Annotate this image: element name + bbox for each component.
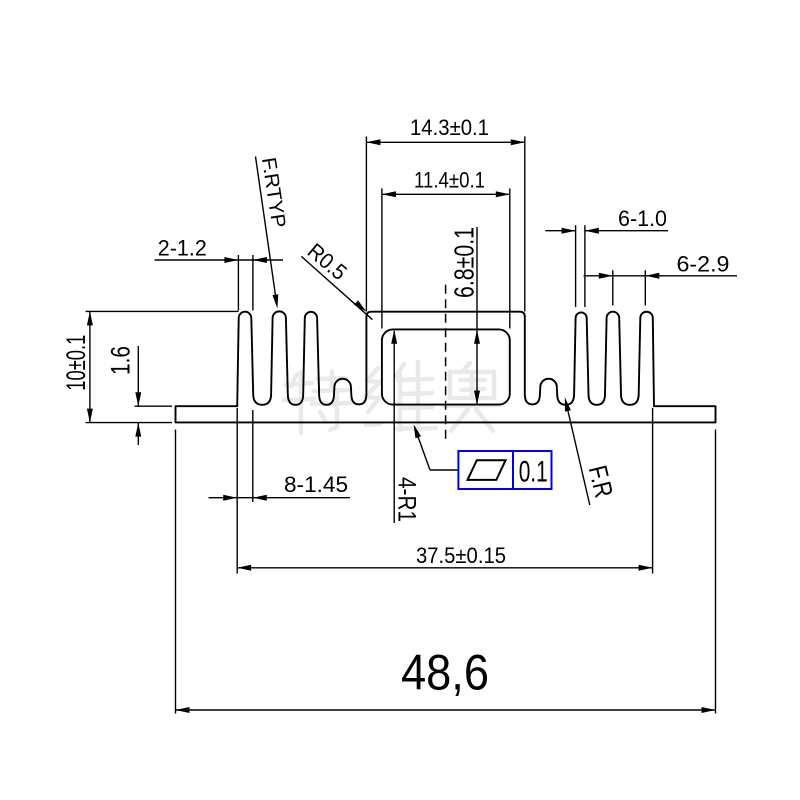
svg-text:6-1.0: 6-1.0 <box>618 206 667 231</box>
svg-text:6.8±0.1: 6.8±0.1 <box>448 227 479 298</box>
dimension 2-1.2 (outer fin thickness) <box>155 236 283 311</box>
watermark "特维奥" (light gray) <box>291 374 297 386</box>
dimension 10±0.1 (overall height, left) <box>61 311 239 422</box>
dimension 8-1.45 (fin slot width) <box>209 408 351 574</box>
svg-text:8-1.45: 8-1.45 <box>284 472 348 497</box>
svg-text:10±0.1: 10±0.1 <box>61 335 91 391</box>
dimension 14.3±0.1 (outer channel width) <box>366 115 524 312</box>
svg-text:1.6: 1.6 <box>105 346 135 375</box>
dimension 48,6 (overall width) <box>176 430 716 714</box>
svg-text:F.RTYP: F.RTYP <box>257 156 289 229</box>
svg-text:F.R: F.R <box>583 462 620 500</box>
dimension 6-2.9 (fin pitch) <box>584 251 738 305</box>
leader label 4-R1 (inner corner radii) <box>391 330 420 523</box>
dimension 6-1.0 (fin thickness) <box>545 206 668 307</box>
inner channel bore (rounded rectangle R1) <box>382 329 510 404</box>
dimension 37.5±0.15 (fin body width) <box>237 408 652 574</box>
dimension 1.6 (base thickness) <box>105 346 172 445</box>
svg-text:37.5±0.15: 37.5±0.15 <box>416 543 506 568</box>
dimension 6.8±0.1 (inner channel height) <box>448 227 480 405</box>
leader label F.RTYP (fin tip radius typical) <box>256 156 290 309</box>
heatsink profile outline <box>176 311 716 422</box>
svg-text:14.3±0.1: 14.3±0.1 <box>410 115 489 140</box>
dimension 11.4±0.1 (inner channel width) <box>382 167 510 328</box>
svg-text:R0.5: R0.5 <box>303 238 352 285</box>
flatness tolerance frame 0.1 (blue box) <box>414 424 552 489</box>
svg-text:4-R1: 4-R1 <box>393 477 421 522</box>
leader label F.R (root fillet radius) <box>565 397 620 505</box>
leader label R0.5 (channel corner radius) <box>301 238 372 320</box>
svg-text:6-2.9: 6-2.9 <box>677 251 730 276</box>
vertical centerline (dashed) <box>445 285 447 444</box>
svg-text:11.4±0.1: 11.4±0.1 <box>414 167 485 192</box>
svg-text:48,6: 48,6 <box>401 645 489 701</box>
svg-text:0.1: 0.1 <box>519 456 548 489</box>
svg-text:2-1.2: 2-1.2 <box>158 236 207 261</box>
